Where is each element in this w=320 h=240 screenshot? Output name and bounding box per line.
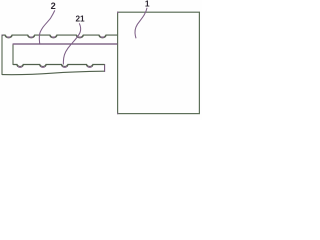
svg-text:1: 1 [145,0,150,9]
leader line for label 1 [135,8,147,39]
purple cores at bump bottoms [18,66,91,67]
svg-text:2: 2 [51,1,56,11]
purple cores at notch bottoms [7,36,105,39]
corner dot: strip inner top-left [13,43,15,44]
notch arcs (darker cores) on top edge [5,35,105,37]
box 1 (large rectangle) [118,12,200,113]
corner dot: box bottom-left [117,113,118,114]
leader line for label 21 [63,23,80,64]
strip 2: outer left edge [1,35,3,75]
strip 2: right end cap [104,64,106,72]
corner dot: strip outer top-left [2,35,4,36]
strip 2: outer bottom edge [2,71,105,74]
bump arcs (darker cores) on inner bottom edge [17,65,92,67]
strip 2: inner top edge [13,43,118,45]
leader line for label 2 [39,10,55,43]
corner dot: box top-left [117,12,119,13]
strip 2: inner bottom edge with bumps 21 [13,65,105,68]
strip 2: outer notched top edge [2,35,118,38]
svg-text:21: 21 [75,15,85,24]
strip 2: inner left edge [12,44,14,65]
